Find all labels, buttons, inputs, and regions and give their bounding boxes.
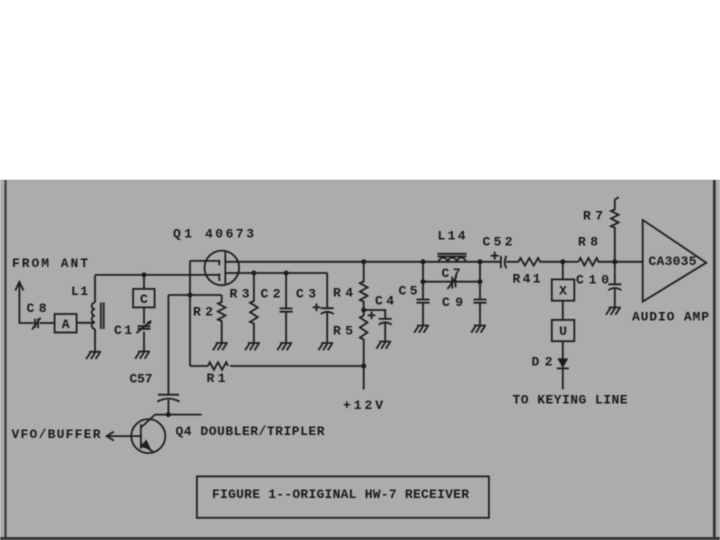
- wire C52 to R41: [506, 261, 518, 263]
- svg-text:VFO/BUFFER: VFO/BUFFER: [12, 427, 101, 442]
- svg-text:C57: C57: [130, 372, 153, 387]
- node junction tank right: [478, 259, 483, 264]
- capacitor C57: [157, 395, 179, 415]
- R7 top tick: [615, 197, 619, 199]
- svg-text:A: A: [62, 317, 70, 332]
- ground under R3: [245, 343, 260, 350]
- C4 plus sign: [368, 312, 376, 320]
- MOSFET Q1 channel bar: [224, 251, 226, 283]
- node junction tank lower right: [478, 279, 483, 284]
- ground under C5: [414, 326, 429, 333]
- ground under R2: [213, 343, 228, 350]
- node junction top wire / C box: [142, 272, 147, 277]
- node junction bias/R2: [188, 293, 193, 298]
- svg-text:FIGURE 1--ORIGINAL HW-7 RECEIV: FIGURE 1--ORIGINAL HW-7 RECEIVER: [212, 487, 469, 502]
- ground under C3: [318, 343, 333, 350]
- resistor R3: [250, 273, 258, 343]
- wire R1 bottom rail: [190, 365, 364, 367]
- ground under C1: [135, 352, 150, 359]
- node junction C57/Q4 collector: [166, 412, 171, 417]
- C3 plus sign: [313, 304, 321, 312]
- node junction tank left: [421, 259, 426, 264]
- C52 plus sign: [491, 252, 499, 260]
- page frame right border: [713, 180, 716, 540]
- block U: [552, 320, 575, 341]
- op-amp U1 audio amplifier triangle: [643, 220, 707, 302]
- figure caption box: [197, 476, 489, 517]
- block X (crystal): [552, 279, 575, 300]
- wire A box to L1: [77, 322, 94, 324]
- MOSFET Q1 gate bars: [218, 260, 220, 281]
- inductor L1 (tapped coil with core): [94, 275, 96, 352]
- capacitor C10: [608, 262, 621, 308]
- capacitor C52 electrolytic coupling: [501, 256, 507, 268]
- svg-text:R41: R41: [513, 272, 541, 287]
- wire gate2 to bias rail: [190, 260, 219, 262]
- svg-text:AUDIO AMP: AUDIO AMP: [632, 310, 709, 325]
- wire tank line to C52: [423, 261, 501, 263]
- wire R41 node to R8: [563, 261, 579, 263]
- wire to C box: [143, 275, 145, 289]
- capacitor C5: [417, 282, 430, 326]
- transistor Q4 emitter with arrow: [141, 444, 153, 452]
- page frame left border: [4, 180, 6, 540]
- resistor R1: [208, 362, 228, 370]
- resistor R2: [218, 295, 226, 343]
- resistor R4: [360, 262, 368, 310]
- capacitor C3 electrolytic: [321, 273, 334, 343]
- svg-text:Q4 DOUBLER/TRIPLER: Q4 DOUBLER/TRIPLER: [176, 424, 325, 439]
- capacitor C4 electrolytic: [379, 319, 392, 342]
- scanned page gray background: [0, 180, 720, 540]
- wire R4 junction to C4: [364, 310, 386, 319]
- wire C8 to A box: [40, 322, 55, 324]
- svg-text:C: C: [140, 292, 148, 307]
- block A (antenna box): [55, 314, 77, 333]
- ground under C9: [471, 326, 486, 333]
- node junction R4/R5/C4: [361, 308, 366, 313]
- wire Q4 base to VFO: [107, 435, 141, 437]
- variable capacitor C1: [138, 326, 151, 329]
- resistor R5: [360, 310, 368, 366]
- wire L1 top to Q1 gate1: [95, 274, 219, 276]
- inductor L1 core: [101, 303, 104, 330]
- wire to +12V: [363, 366, 365, 390]
- wire to audio amp: [615, 261, 643, 263]
- capacitor C8: [35, 319, 38, 328]
- svg-text:L1: L1: [71, 284, 88, 299]
- svg-text:40673: 40673: [205, 227, 254, 242]
- node junction source/C2: [284, 271, 289, 276]
- wire U to D2: [562, 341, 564, 358]
- VFO arrowhead: [107, 432, 114, 441]
- transistor Q4 body circle: [131, 419, 165, 453]
- transistor Q4 base bar: [140, 424, 142, 448]
- ground under C10: [606, 308, 621, 315]
- node junction source/R3: [251, 271, 256, 276]
- inductor L14 winding: [439, 258, 466, 262]
- capacitor C9: [474, 282, 487, 326]
- ground under L1: [86, 352, 101, 359]
- wire D2 to keying line: [562, 368, 564, 389]
- svg-text:FROM ANT: FROM ANT: [12, 256, 88, 271]
- inductor L14 core: [438, 253, 467, 255]
- wire Q1 source line: [225, 272, 327, 274]
- resistor R8: [579, 258, 615, 266]
- node junction R5/R1/+12V: [361, 364, 366, 369]
- antenna mast wire: [19, 282, 33, 323]
- resistor R41: [519, 258, 563, 266]
- block C (crystal filter box): [133, 289, 155, 308]
- antenna arrowhead: [15, 282, 23, 291]
- tank lower loop wire: [423, 262, 480, 282]
- wire C1 to ground: [143, 332, 145, 352]
- ground under C4: [376, 342, 391, 349]
- wire left bias vertical: [189, 261, 191, 366]
- wire bias line down to C57: [167, 295, 169, 395]
- wire junction to X box: [562, 262, 564, 280]
- node junction R41/X: [560, 259, 565, 264]
- svg-text:U: U: [559, 324, 567, 339]
- wire collector stub: [142, 415, 202, 427]
- wire C57 feed line: [168, 294, 221, 296]
- resistor R7: [611, 200, 619, 262]
- node junction R8/R7/C10: [612, 259, 617, 264]
- MOSFET Q1 body circle: [205, 251, 240, 286]
- svg-text:TO KEYING LINE: TO KEYING LINE: [513, 393, 628, 408]
- svg-text:CA3035: CA3035: [649, 254, 697, 269]
- page frame bottom border: [0, 537, 720, 540]
- wire C box to C1: [143, 307, 145, 323]
- svg-text:L14: L14: [438, 229, 466, 244]
- svg-text:C52: C52: [483, 235, 513, 250]
- capacitor C2: [280, 273, 293, 343]
- trimmer capacitor C7: [452, 277, 455, 289]
- diode D2: [557, 358, 568, 368]
- svg-text:C10: C10: [576, 273, 609, 288]
- wire Q1 drain line to tank: [225, 261, 423, 263]
- node junction tank lower left: [421, 279, 426, 284]
- wire X to U box: [562, 301, 564, 320]
- node junction drain/R4: [361, 259, 366, 264]
- svg-text:X: X: [559, 284, 567, 299]
- ground under C2: [277, 343, 292, 350]
